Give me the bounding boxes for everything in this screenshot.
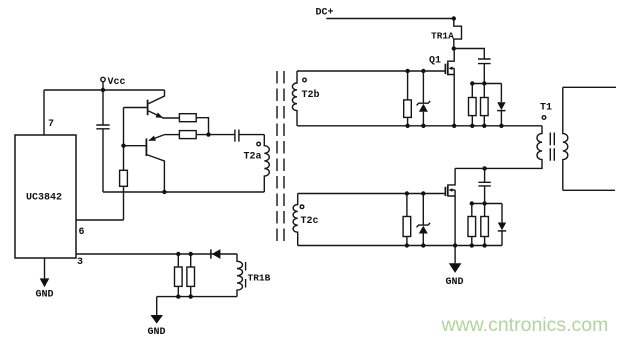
svg-text:GND: GND	[36, 290, 54, 301]
pin 7 wire	[43, 90, 45, 135]
svg-text:T2a: T2a	[244, 152, 262, 163]
svg-text:www.cntronics.com: www.cntronics.com	[441, 314, 609, 336]
node R5 top	[189, 252, 193, 256]
capacitor C4 snubber	[484, 168, 486, 182]
transformer T2b secondary winding	[292, 71, 297, 126]
wire snubber mid	[472, 83, 501, 85]
capacitor C2 coupling	[235, 130, 239, 142]
wire snubber mid bottom	[472, 203, 502, 205]
resistor R7	[469, 98, 477, 116]
transistor Q1 MOSFET	[444, 64, 446, 74]
node Vcc junction	[101, 88, 105, 92]
node T1 primary cap junction	[482, 166, 486, 170]
transformer T2 core dashed lines	[277, 71, 284, 245]
transformer T1 secondary winding	[563, 87, 568, 190]
TR1B core	[245, 262, 247, 288]
svg-text:GND: GND	[446, 277, 464, 288]
svg-text:T1: T1	[540, 103, 552, 114]
ground GND3	[156, 297, 158, 315]
transistor Q3 NPN driver	[147, 100, 149, 116]
ground GND2	[454, 246, 456, 264]
resistor R11	[481, 217, 489, 237]
capacitor C1	[102, 90, 104, 125]
transformer T1 primary winding	[455, 126, 542, 169]
capacitor C3 snubber	[454, 49, 485, 60]
wire T2c bottom rail	[298, 245, 502, 247]
transistor Q2 MOSFET	[448, 168, 455, 186]
svg-text:GND: GND	[148, 327, 166, 338]
svg-text:TR1B: TR1B	[248, 273, 271, 284]
resistor R6 gate	[404, 100, 412, 118]
node T2c polarity dot	[300, 205, 304, 209]
node R4 bottom	[176, 294, 180, 298]
node T2a polarity dot	[257, 142, 261, 146]
transformer TR1B winding	[237, 254, 243, 297]
Vcc terminal	[101, 77, 105, 81]
svg-text:T2c: T2c	[301, 216, 319, 227]
diode D4	[501, 204, 503, 223]
wire T2c top	[298, 193, 446, 195]
transistor Q4 PNP driver	[145, 139, 147, 157]
resistor R2	[179, 131, 196, 139]
wire pin 3	[76, 253, 237, 255]
ground GND1	[44, 258, 46, 278]
svg-text:Vcc: Vcc	[108, 77, 126, 88]
wire T2b bottom rail	[297, 125, 542, 127]
node base junction	[121, 144, 125, 148]
node DC+ junction	[452, 16, 456, 20]
top rail wire Vcc	[44, 89, 165, 91]
transformer T2c secondary winding	[293, 194, 298, 246]
wire bottom return rail	[103, 191, 264, 193]
wire T2b top	[297, 70, 445, 72]
resistor R8	[481, 98, 489, 116]
wire T1 secondary stubs	[563, 87, 616, 190]
resistor R3 base	[120, 170, 128, 186]
zener Z1	[422, 71, 424, 103]
node dots bottom rail	[405, 124, 409, 128]
node R4 top	[176, 252, 180, 256]
svg-text:7: 7	[48, 119, 54, 130]
node TR1A bottom junction	[452, 46, 456, 50]
diode D2	[500, 84, 502, 103]
resistor R10	[468, 217, 476, 237]
T1 core	[550, 133, 554, 161]
resistor R9 gate	[403, 217, 411, 237]
svg-text:UC3842: UC3842	[26, 193, 62, 204]
wire TR1B bottom	[157, 296, 237, 298]
wire DC+	[326, 18, 454, 20]
node resistor junction	[206, 132, 210, 136]
transformer T2a primary winding	[264, 135, 269, 192]
svg-text:T2b: T2b	[302, 89, 320, 101]
svg-text:6: 6	[79, 227, 85, 238]
node dots top wire	[405, 69, 409, 73]
op-amp U1 UC3842 controller box	[15, 135, 76, 258]
svg-text:DC+: DC+	[316, 8, 334, 19]
node T2b polarity dot	[303, 78, 307, 82]
svg-text:TR1A: TR1A	[431, 31, 454, 42]
resistor R5	[187, 267, 195, 286]
wire pin 6	[76, 219, 124, 221]
node PNP collector to rail	[162, 190, 166, 194]
wire base line	[123, 108, 125, 171]
svg-text:Q1: Q1	[429, 56, 441, 67]
diode D1	[210, 249, 212, 258]
zener Z2	[422, 194, 424, 226]
node T1 polarity dot	[542, 116, 546, 120]
svg-text:3: 3	[77, 257, 83, 268]
resistor R1	[179, 114, 196, 122]
wire R1 to node	[196, 118, 208, 135]
resistor R4	[175, 267, 183, 286]
transformer TR1A winding	[454, 19, 462, 49]
node R5 bottom	[189, 294, 193, 298]
